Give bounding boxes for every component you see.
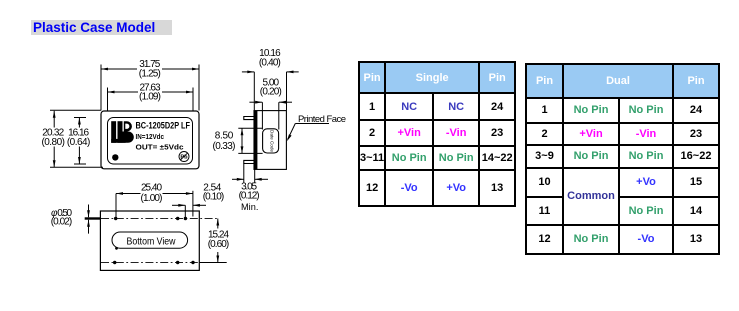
svg-text:(0.64): (0.64) — [67, 137, 91, 148]
svg-text:OUT= ±5Vdc: OUT= ±5Vdc — [136, 143, 184, 152]
svg-text:(0.80): (0.80) — [41, 137, 64, 148]
svg-text:(1.25): (1.25) — [139, 68, 161, 79]
svg-text:(1.09): (1.09) — [139, 92, 161, 103]
svg-text:(0.20): (0.20) — [260, 87, 282, 98]
svg-text:(0.02): (0.02) — [51, 217, 73, 228]
svg-text:(0.40): (0.40) — [259, 57, 281, 68]
svg-text:Date Code: Date Code — [269, 130, 274, 152]
svg-text:(0.33): (0.33) — [213, 141, 236, 152]
svg-text:IN=12Vdc: IN=12Vdc — [136, 132, 165, 141]
svg-text:Bottom View: Bottom View — [127, 235, 176, 247]
svg-text:(0.12): (0.12) — [239, 190, 260, 201]
svg-text:(1.00): (1.00) — [141, 193, 163, 204]
svg-text:(0.10): (0.10) — [203, 191, 225, 202]
svg-text:BC-1205D2P LF: BC-1205D2P LF — [136, 120, 191, 130]
svg-text:Pb: Pb — [180, 155, 188, 161]
svg-text:Printed Face: Printed Face — [298, 114, 346, 125]
svg-text:(0.60): (0.60) — [208, 239, 230, 250]
svg-text:Min.: Min. — [241, 202, 258, 212]
